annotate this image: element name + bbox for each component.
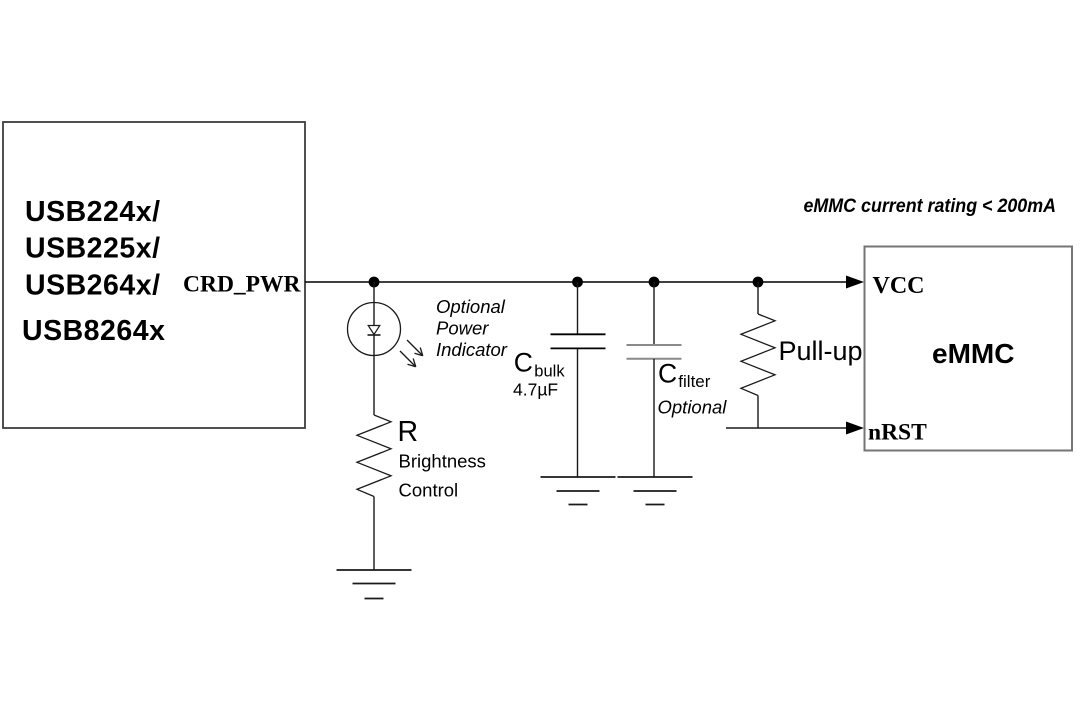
label R [398,416,419,448]
resistor Pull-up (zigzag) [741,314,775,396]
label USB8264x [22,315,165,347]
wire LED cathode to resistor R [373,356,375,416]
wire node to LED anode [373,282,375,303]
svg-text:Indicator: Indicator [436,339,508,360]
label Pull-up [779,336,863,366]
svg-text:USB264x/: USB264x/ [25,270,161,302]
wire nRST (horizontal with stub) [726,427,847,429]
wire resistor R to ground [373,497,375,571]
capacitor Cbulk [551,334,606,348]
ground (LED branch) [337,570,412,599]
label Cbulk [514,348,566,381]
svg-text:Brightness: Brightness [399,451,486,472]
LED D1 (circle body) [348,303,401,356]
wire Cfilter to ground [653,359,655,477]
svg-text:Control: Control [399,480,459,501]
svg-text:nRST: nRST [868,420,927,446]
pin label VCC [873,273,925,299]
label USB224x/ [25,196,161,228]
svg-text:Optional: Optional [436,296,506,317]
note Optional Power Indicator [436,296,508,360]
capacitor Cfilter [627,345,682,359]
resistor R (zigzag) [357,415,391,497]
arrowhead into nRST pin [846,422,864,435]
pin label nRST [868,420,927,446]
ground (Cfilter) [618,477,693,505]
label USB264x/ [25,270,161,302]
svg-text:C: C [658,359,677,389]
ground (Cbulk) [541,477,616,505]
svg-text:eMMC current rating < 200mA: eMMC current rating < 200mA [804,195,1057,217]
label USB225x/ [25,233,161,265]
svg-text:R: R [398,416,419,448]
svg-text:C: C [514,348,533,378]
wire node to Cbulk [577,282,579,334]
label eMMC [932,338,1014,369]
node junction: pull-up branch [753,277,764,288]
node junction: Cfilter branch [649,277,660,288]
svg-text:USB224x/: USB224x/ [25,196,161,228]
node junction: Cbulk branch [572,277,583,288]
wire node to pull-up resistor [757,282,759,314]
eMMC box U2 [865,247,1073,451]
note eMMC current rating < 200mA [804,195,1057,217]
svg-text:VCC: VCC [873,273,925,299]
svg-text:filter: filter [678,372,710,391]
label Cfilter [658,359,711,392]
wire Cbulk to ground [577,348,579,477]
wire node to Cfilter [653,282,655,345]
pin label CRD_PWR [183,272,302,298]
svg-text:eMMC: eMMC [932,338,1014,369]
LED light emission arrow 1 [407,340,423,356]
LED light emission arrow 2 [400,351,416,367]
svg-text:USB8264x: USB8264x [22,315,165,347]
svg-text:4.7µF: 4.7µF [513,380,558,400]
svg-text:Pull-up: Pull-up [779,336,863,366]
value label 4.7µF [513,380,558,400]
note Optional (Cfilter) [658,397,728,418]
label Brightness [399,451,486,472]
wire CRD_PWR to VCC [305,281,847,283]
svg-text:Power: Power [436,318,489,339]
label Control [399,480,459,501]
arrowhead into VCC pin [846,276,864,289]
svg-text:bulk: bulk [534,363,565,381]
svg-text:Optional: Optional [658,397,728,418]
svg-text:USB225x/: USB225x/ [25,233,161,265]
svg-text:CRD_PWR: CRD_PWR [183,272,302,298]
USB hub IC box U1 [3,122,305,428]
wire pull-up to nRST net [757,396,759,429]
node junction: LED branch [369,277,380,288]
